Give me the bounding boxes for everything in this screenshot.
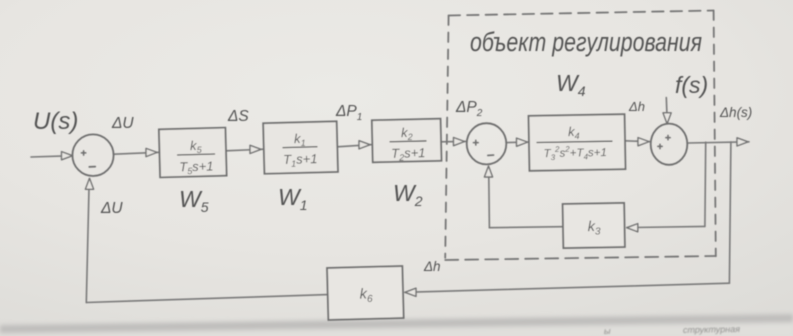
summing junction S3 (651, 124, 688, 165)
block k6 gain label (359, 286, 373, 305)
svg-text:U(s): U(s) (33, 108, 78, 135)
wire inner feedback horizontal to k3 (627, 226, 705, 227)
svg-text:Δh(s): Δh(s) (719, 105, 752, 120)
dashed boundary: object of regulation (445, 11, 716, 261)
wire W5 to W1 (226, 149, 264, 151)
wire k6 loop vertical up to S1 (86, 180, 89, 303)
wire input to S1 (31, 156, 73, 157)
arrowhead up into S1 (85, 178, 93, 189)
arrowhead into W4 (517, 138, 528, 146)
faint caption remnants (604, 324, 740, 336)
block W1 transfer function (282, 131, 317, 169)
arrowhead up into S2 (484, 166, 492, 177)
block W2 transfer function (390, 125, 427, 163)
arrowhead into S1 (62, 152, 73, 160)
block k3 box (563, 203, 625, 248)
block k6 box (327, 266, 404, 320)
wire outer tap vertical (729, 142, 731, 283)
summing junction S1 (72, 134, 113, 176)
block W5 transfer function (177, 137, 215, 176)
wire k6 to S1 horizontal (86, 295, 327, 303)
arrowhead into k3 right side (627, 224, 638, 232)
arrowhead output (737, 138, 748, 146)
wire W4 to S3 (625, 140, 651, 143)
arrowhead f(s) down into S3 (663, 113, 671, 124)
svg-text:ΔU: ΔU (100, 200, 123, 217)
wire f(s) drop (665, 98, 668, 114)
svg-text:ы: ы (604, 326, 611, 336)
svg-text:структурная: структурная (683, 324, 740, 335)
arrowhead into k6 right side (405, 288, 416, 296)
svg-text:T2s+1: T2s+1 (391, 145, 426, 163)
wire W2 to S2 (441, 140, 466, 142)
wire S2 to W4 (507, 141, 529, 144)
wire outer feedback horizontal to k6 (405, 283, 730, 292)
summing junction S2 (467, 123, 507, 164)
svg-text:объект регулирования: объект регулирования (470, 27, 702, 57)
block W5 box (159, 128, 227, 178)
block W4 transfer function (537, 123, 613, 162)
svg-text:Δh: Δh (423, 259, 441, 274)
svg-text:Δh: Δh (628, 99, 645, 114)
wire k3 to S2 horizontal (489, 227, 563, 228)
arrowhead into S3 (638, 138, 649, 146)
wire W1 to W2 (337, 145, 372, 147)
arrowhead into S2 (454, 138, 465, 146)
svg-text:ΔS: ΔS (227, 108, 249, 125)
wire S1 to W5 (114, 152, 160, 154)
wire S3 to output (688, 142, 749, 143)
block k3 gain label (587, 219, 601, 238)
svg-text:f(s): f(s) (675, 72, 708, 98)
block W2 box (372, 119, 442, 163)
block W4 box (529, 114, 626, 171)
wire inner tap vertical (704, 142, 707, 226)
arrowhead into W1 (250, 145, 261, 153)
arrowhead into W2 (359, 141, 370, 149)
svg-text:ΔU: ΔU (111, 115, 134, 132)
page-edge shadow band at bottom (0, 314, 793, 336)
arrowhead into W5 (146, 148, 157, 156)
wire k3 loop vertical up to S2 (488, 168, 491, 228)
block W1 box (263, 121, 338, 173)
